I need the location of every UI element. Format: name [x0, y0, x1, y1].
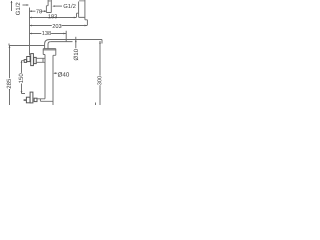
label 183	[48, 14, 57, 18]
pipe top-center	[46, 0, 51, 13]
dimension 285 line	[9, 46, 11, 106]
label G1/2 top-left	[16, 3, 20, 15]
union stub lower	[24, 99, 27, 101]
label 150	[19, 73, 24, 84]
dimension 203 line	[30, 25, 88, 27]
text labels	[7, 3, 102, 89]
label 300 right	[97, 76, 102, 86]
dimension 78 line	[30, 10, 47, 12]
wire bottom tick	[95, 103, 97, 106]
label O40	[58, 72, 69, 77]
dimension right vertical line	[99, 41, 101, 105]
pipe elbow	[45, 40, 51, 49]
dimension 183 line	[30, 13, 79, 17]
body outline	[45, 55, 53, 106]
label 78	[35, 9, 41, 14]
label 203	[52, 23, 62, 28]
union knob lower	[26, 92, 37, 103]
dimension 150 line	[22, 61, 26, 94]
label 138	[41, 30, 51, 35]
pipe horizontal arm	[43, 40, 102, 106]
node O10 leader line	[75, 37, 77, 48]
pipe top-right	[79, 0, 88, 26]
node G1/2 top-left up arrow line	[11, 1, 13, 11]
label G1/2 top-right	[64, 4, 76, 8]
node O40 arrow line	[55, 72, 58, 74]
arrowheads dims	[30, 10, 32, 12]
label O10	[74, 49, 79, 60]
wire left extension line	[29, 8, 31, 56]
node G1/2 top-right arrow line	[54, 5, 62, 7]
union knob upper	[24, 54, 36, 66]
label 285	[7, 78, 12, 89]
wire top extension line 285	[9, 44, 45, 46]
escutcheon cap box	[43, 49, 56, 56]
dimension 138 line	[30, 31, 67, 42]
node G1/2 top-left right arrow line	[23, 4, 28, 6]
